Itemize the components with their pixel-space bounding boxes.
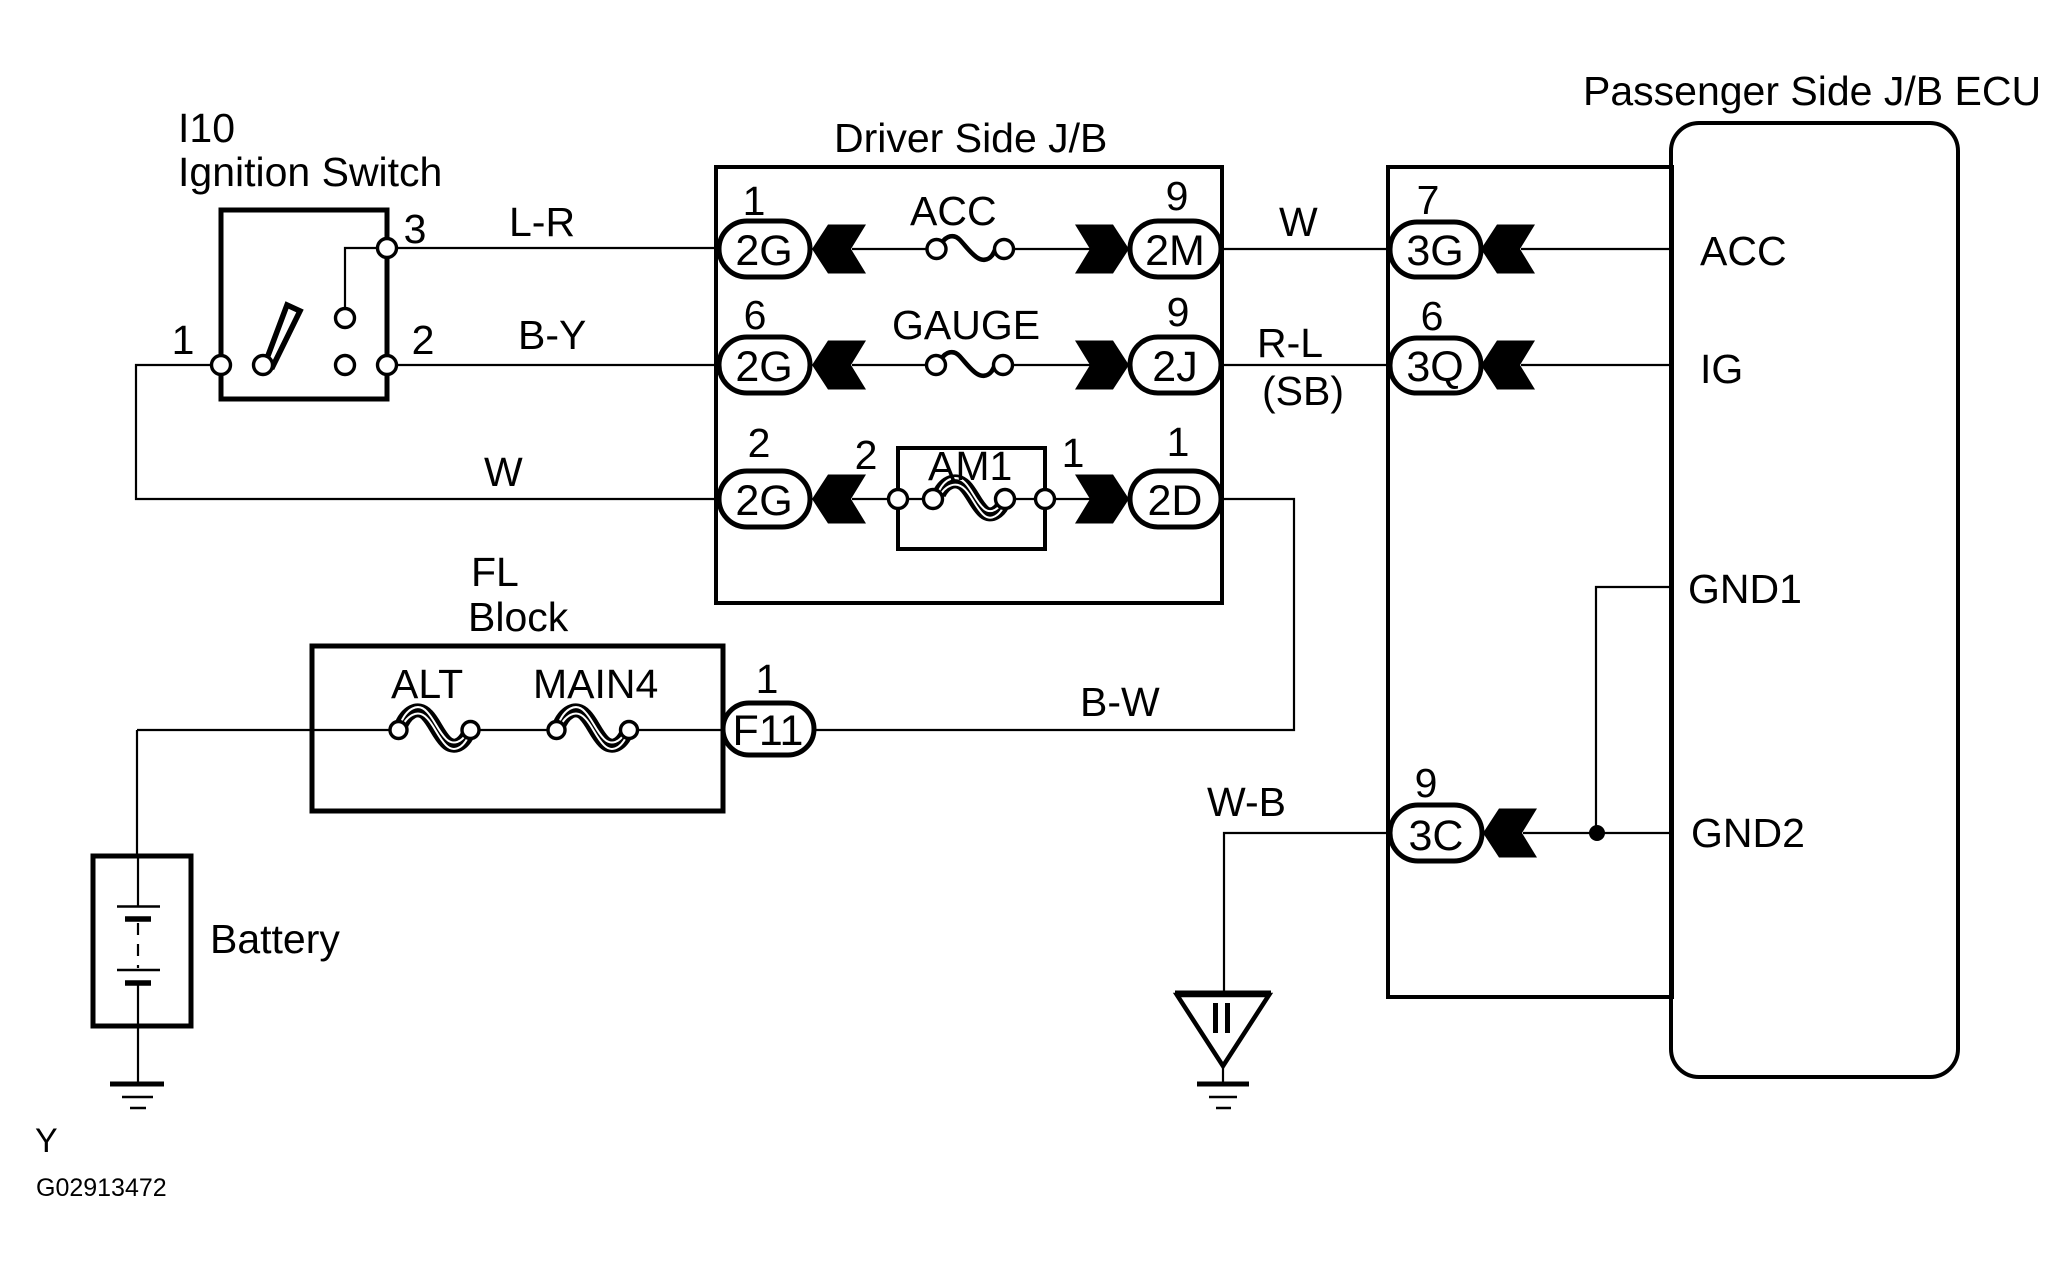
contact acc [336,309,355,328]
battery plate short 2 [125,980,151,986]
connector 2G row3 [719,471,810,527]
svg-text:6: 6 [744,292,767,338]
svg-text:R-L: R-L [1257,320,1323,366]
svg-text:FL: FL [471,549,519,595]
switch lever [266,305,300,366]
svg-text:ACC: ACC [1700,228,1787,274]
svg-text:Ignition Switch: Ignition Switch [178,149,442,195]
svg-text:1: 1 [172,317,195,363]
ground II mark [1213,1003,1218,1033]
AM1 pins [889,490,908,509]
FL block box [312,646,723,811]
wire IG to ECU [1521,364,1671,366]
battery ground bar 1 [110,1082,164,1087]
battery plate long 1 [117,905,160,908]
wire B-Y from pin2 to 2G [387,364,717,366]
AM1 fusible link box [898,448,1045,549]
pin 2 [378,356,397,375]
connector F11 [723,703,814,755]
connector 2J [1130,337,1221,393]
battery ground bar 2 [122,1096,153,1099]
connector 2D [1130,471,1221,527]
svg-text:(SB): (SB) [1262,368,1344,414]
connector 3C [1390,805,1482,861]
svg-text:6: 6 [1421,293,1444,339]
svg-text:2J: 2J [1152,343,1197,391]
svg-text:2: 2 [748,420,771,466]
row2 wire [852,364,928,366]
arrow into 2G row1 [812,225,866,274]
svg-text:G02913472: G02913472 [36,1174,167,1202]
connector 2G row2 [719,337,810,393]
svg-text:7: 7 [1417,177,1440,223]
arrow into 2M [1075,225,1129,274]
ground symbol triangle [1175,991,1271,996]
svg-text:F11: F11 [733,707,804,755]
svg-text:IG: IG [1700,346,1743,392]
svg-text:B-W: B-W [1080,679,1160,725]
svg-text:9: 9 [1167,289,1190,335]
ground stem [1222,1066,1224,1082]
svg-text:2G: 2G [735,227,792,275]
svg-text:Passenger Side J/B ECU: Passenger Side J/B ECU [1583,68,2041,114]
battery dashed wire [137,923,139,968]
wire W from pin1 to 2G row3 [136,365,717,499]
arrow into 2G row2 [812,341,866,390]
switch internal wire from pin3 down [345,248,378,309]
fuse GAUGE [941,352,998,376]
svg-text:3C: 3C [1409,812,1464,860]
wire B-W from 2D to F11 [816,499,1294,730]
arrow into 3C [1483,809,1537,858]
battery ground bar 3 [130,1107,146,1110]
svg-text:I10: I10 [178,105,235,151]
svg-text:ALT: ALT [391,661,463,707]
svg-text:MAIN4: MAIN4 [533,661,658,707]
ground bar 1 [1197,1082,1249,1087]
svg-text:AM1: AM1 [928,443,1012,489]
ignition switch I10 box [221,210,387,399]
connector 2G row1 [719,221,810,277]
FL row wire [137,729,402,731]
svg-text:Battery: Battery [210,916,340,962]
svg-text:GND1: GND1 [1688,566,1802,612]
lever contact [254,356,273,375]
wire from battery to FL block [136,730,138,856]
pin 3 [378,239,397,258]
arrow into 3G [1481,225,1535,274]
svg-text:9: 9 [1166,173,1189,219]
junction dot [1589,825,1605,841]
svg-text:Driver Side J/B: Driver Side J/B [834,115,1107,161]
wire GND1 [1596,587,1671,833]
svg-text:1: 1 [743,178,766,224]
svg-text:B-Y: B-Y [518,312,586,358]
arrow into 2J [1075,341,1129,390]
wire W from 2M to 3G [1221,248,1390,250]
passenger connector box [1388,167,1672,997]
svg-text:3: 3 [404,206,427,252]
wire ACC to ECU [1521,248,1671,250]
svg-text:W: W [484,449,523,495]
svg-text:2: 2 [855,432,878,478]
svg-text:1: 1 [1167,419,1190,465]
battery internal wire top [137,856,139,906]
connector 3Q [1390,338,1481,393]
svg-text:2: 2 [412,317,435,363]
svg-text:2D: 2D [1148,477,1203,525]
svg-text:1: 1 [756,656,779,702]
svg-text:9: 9 [1415,760,1438,806]
row1 wire [852,248,929,250]
svg-text:2G: 2G [735,343,792,391]
svg-text:W: W [1279,199,1318,245]
arrow into 3Q [1481,341,1535,390]
svg-text:W-B: W-B [1207,779,1286,825]
battery box [93,856,191,1026]
battery bottom wire [137,985,139,1083]
svg-text:GAUGE: GAUGE [892,302,1040,348]
svg-text:2G: 2G [735,477,792,525]
battery plate long 2 [117,969,160,972]
Driver Side J/B box [716,167,1222,603]
pin 1 [212,356,231,375]
arrow into 2D [1075,475,1129,524]
fusible link AM1 wave [939,481,1004,514]
svg-text:1: 1 [1062,430,1085,476]
svg-text:L-R: L-R [509,199,575,245]
svg-text:ACC: ACC [910,188,997,234]
wire GND2 [1523,832,1671,834]
fusible link ALT [400,710,468,745]
battery plate short 1 [125,916,151,922]
svg-text:Y: Y [35,1122,58,1160]
ground bar 3 [1216,1107,1231,1110]
fusible link MAIN4 [558,710,626,745]
ground bar 2 [1209,1096,1237,1099]
svg-text:3G: 3G [1406,227,1463,275]
svg-text:2M: 2M [1145,227,1205,275]
connector 3G [1390,222,1481,277]
svg-text:GND2: GND2 [1691,810,1805,856]
wire L-R from pin3 to 2G [387,247,719,249]
wire W-B [1224,833,1390,993]
connector 2M [1130,221,1221,277]
svg-text:Block: Block [468,594,569,640]
fuse ACC [941,236,998,260]
arrow into 2G row3 [812,475,866,524]
svg-text:3Q: 3Q [1406,343,1463,391]
wire R-L from 2J to 3Q [1220,364,1390,366]
contact mid [336,356,355,375]
row3 wire [852,498,926,500]
ECU box [1671,123,1958,1077]
